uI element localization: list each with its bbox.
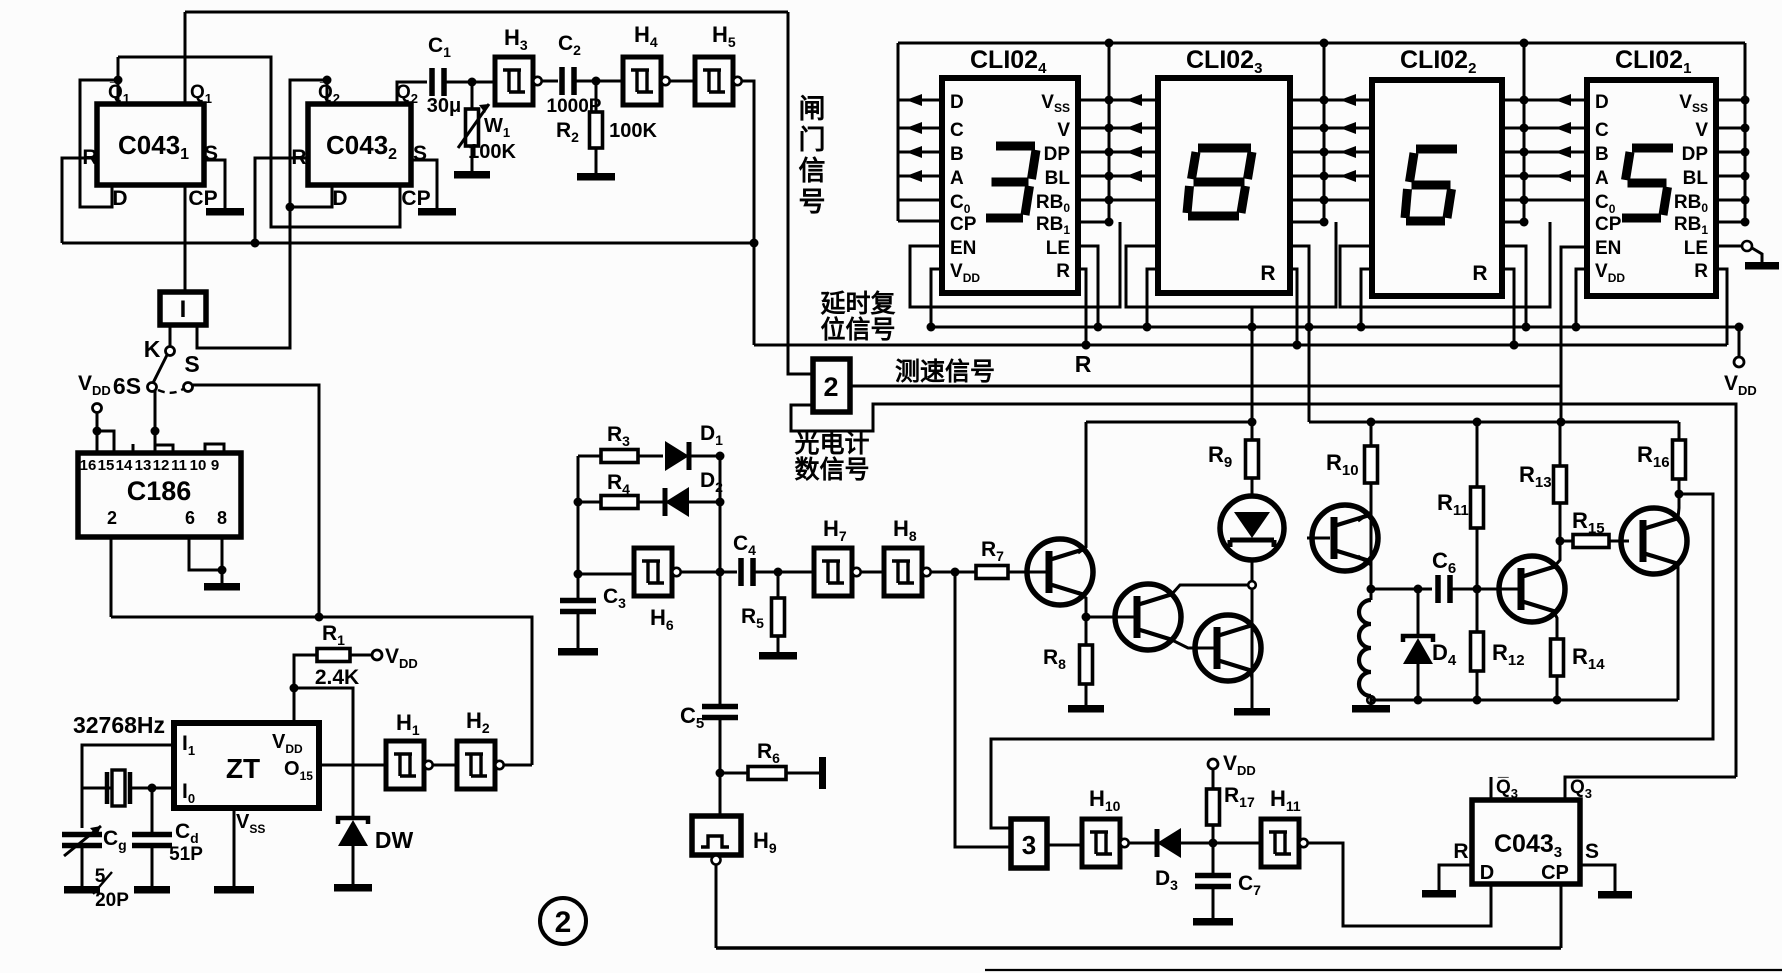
svg-text:9: 9	[211, 457, 219, 474]
digit 8 (CLI02_3)	[1198, 144, 1251, 153]
wire R4 left	[578, 501, 601, 504]
svg-text:R: R	[1694, 261, 1708, 282]
svg-text:B: B	[950, 144, 964, 165]
transistor Q1	[1027, 539, 1093, 605]
divider box I	[160, 292, 206, 325]
resistor R14	[1551, 639, 1564, 676]
R staple CLI02_2	[1502, 269, 1514, 345]
gate H1	[386, 741, 424, 789]
flip-flop C043_1	[97, 104, 204, 185]
svg-text:S: S	[1585, 840, 1599, 863]
pin stub 14	[132, 444, 135, 453]
capacitor C7	[1212, 843, 1215, 874]
wire D1 to vertical	[689, 455, 720, 458]
wire R15 to Q6 base	[1609, 540, 1629, 543]
resistor R17	[1212, 825, 1215, 843]
svg-text:A: A	[950, 168, 964, 189]
wire Q̄1 to D1 input staple	[80, 80, 118, 207]
EN staple CLI02_4	[910, 222, 1120, 307]
wire LC node to C6	[1371, 588, 1432, 591]
wire Q2 emitter to Q3 base	[1172, 640, 1214, 648]
node diode column join	[716, 452, 725, 461]
wire Q4 base stub	[1307, 537, 1330, 540]
switch contact 6S	[148, 383, 157, 392]
oscillator block ZT	[174, 723, 319, 808]
wire I box to switch K	[169, 325, 172, 347]
node D2 staple	[286, 203, 295, 212]
wire R8 to ground	[1085, 684, 1088, 705]
switch wire to pin 13	[154, 391, 157, 453]
resistor R8	[1085, 617, 1088, 645]
display driver CLI02_3	[1158, 78, 1290, 293]
gate H6	[634, 548, 672, 596]
resistor R15	[1560, 540, 1573, 543]
wire Q6 emitter down	[1677, 564, 1680, 700]
ground (C186 pin 6/8)	[204, 583, 240, 591]
svg-text:DP: DP	[1682, 144, 1709, 165]
svg-text:V: V	[1695, 120, 1708, 141]
wire H6 input	[578, 573, 634, 576]
wire Q5 emitter to R14	[1553, 610, 1557, 639]
node Q1 emitter	[1082, 613, 1091, 622]
display driver CLI02_4	[942, 78, 1078, 293]
bubble H4 out	[661, 77, 669, 85]
svg-text:2.4K: 2.4K	[315, 666, 359, 689]
capacitor C6	[1438, 575, 1450, 603]
svg-text:6: 6	[185, 508, 195, 528]
ground (C3)	[558, 648, 598, 656]
wire 3 to H10	[1047, 844, 1082, 847]
display driver CLI02_2	[1372, 80, 1502, 296]
zener DW	[338, 818, 368, 824]
wire Q̄2 to D2 staple	[290, 80, 332, 207]
wire Q̄2 stub	[326, 80, 329, 104]
wire Q3 to bus D	[1565, 777, 1736, 800]
node R5 tap	[774, 568, 783, 577]
svg-text:信: 信	[799, 156, 826, 186]
switch dashed link	[158, 389, 183, 393]
wire top bus to gate-signal line	[185, 11, 788, 14]
svg-text:D: D	[1480, 862, 1494, 884]
bubble H8 out	[922, 568, 930, 576]
VDD staple CLI02_2	[1361, 269, 1372, 327]
ground (C7)	[1193, 918, 1233, 926]
wire H5 output - delayed reset	[742, 81, 754, 345]
svg-text:CP: CP	[1595, 214, 1622, 235]
wire base node to Q5	[1477, 588, 1518, 591]
gate H4	[623, 57, 661, 105]
VDD staple CLI02_3	[1147, 269, 1158, 327]
svg-text:20P: 20P	[95, 890, 129, 911]
svg-text:DW: DW	[375, 827, 414, 853]
wire D3 to node	[1181, 842, 1261, 845]
svg-text:光电计: 光电计	[793, 430, 869, 458]
rows right of CLI02_1	[1716, 99, 1745, 102]
ground (VSS)	[214, 886, 254, 894]
svg-text:6S: 6S	[113, 373, 141, 399]
inductor L	[1359, 600, 1371, 696]
switch contact S	[184, 383, 193, 392]
transistor Q4	[1312, 505, 1378, 571]
LE row CLI02_1 to ground	[1716, 245, 1742, 248]
wire H9 down to bottom line	[715, 864, 718, 948]
svg-text:DP: DP	[1044, 144, 1071, 165]
ground (R5)	[759, 652, 797, 660]
svg-text:LE: LE	[1684, 238, 1708, 259]
svg-text:测速信号: 测速信号	[895, 358, 995, 386]
ground (R8)	[1068, 705, 1104, 713]
wire Cd to ground	[151, 846, 154, 886]
resistor R3	[601, 450, 638, 463]
ground (LE CLI02_1)	[1745, 262, 1779, 270]
ground (coil)	[1352, 705, 1390, 713]
svg-text:100K: 100K	[609, 120, 657, 142]
svg-text:10: 10	[190, 457, 207, 474]
wire Q2 collector to LED node	[1172, 585, 1249, 594]
svg-text:13: 13	[135, 457, 152, 474]
wire H2 output up to pin-2 net	[504, 764, 532, 767]
bubble H11 out	[1299, 839, 1307, 847]
resistor R16	[1678, 422, 1681, 440]
svg-text:号: 号	[799, 187, 826, 217]
EN staple CLI02_3	[1126, 222, 1336, 307]
variable capacitor Cg	[62, 835, 102, 846]
wire H3 to C2	[542, 80, 558, 83]
R staple CLI02_3	[1290, 269, 1297, 345]
CP row CLI02_4	[898, 220, 942, 223]
bubble H5 out	[733, 77, 741, 85]
svg-text:R: R	[1260, 262, 1275, 285]
wire D2 to vertical	[689, 501, 720, 504]
wire Q1 stub to top bus	[184, 12, 187, 104]
wire Cg to ground	[81, 846, 84, 886]
LE drop CLI02_4	[1078, 246, 1098, 327]
wire crystal right to I0	[130, 787, 152, 790]
gate H11	[1261, 819, 1299, 867]
resistor R5	[777, 572, 780, 598]
wire C6 to base node	[1450, 588, 1477, 591]
rail corner to R16	[1678, 421, 1679, 424]
counter C186	[78, 453, 241, 537]
bubble H1 out	[424, 761, 432, 769]
resistor R6	[720, 772, 748, 775]
wire C2 to H4	[574, 80, 623, 83]
svg-text:8: 8	[217, 508, 227, 528]
svg-text:16: 16	[80, 457, 97, 474]
gate H5	[695, 57, 733, 105]
wire pin 2 down	[110, 537, 113, 617]
wire Q4 collector	[1358, 512, 1371, 521]
gate H10	[1082, 819, 1120, 867]
wire Q1 emitter to Q2 base	[1086, 616, 1134, 619]
svg-text:门: 门	[799, 125, 826, 155]
resistor R12	[1476, 589, 1479, 632]
wire H7 to H8	[861, 571, 884, 574]
ground (Cd)	[134, 886, 170, 894]
svg-text:14: 14	[116, 457, 133, 474]
svg-text:EN: EN	[950, 238, 976, 259]
wire C4 to H7	[753, 571, 814, 574]
rail left (Q1 collector to R9)	[1086, 421, 1255, 424]
wire R1 node to DW	[294, 688, 353, 818]
svg-text:BL: BL	[1683, 168, 1709, 189]
svg-text:15: 15	[98, 457, 115, 474]
transistor Q2	[1115, 584, 1181, 650]
resistor R4	[601, 496, 638, 509]
svg-text:EN: EN	[1595, 238, 1621, 259]
wire Q1 collector up to rail	[1078, 422, 1086, 553]
svg-text:C186: C186	[127, 476, 192, 506]
wire pin 6 to pin 8	[189, 537, 222, 570]
R staple CLI02_1	[1716, 269, 1727, 345]
bus C (speed signal to EN)	[850, 247, 1587, 386]
node W1 tap	[468, 78, 477, 87]
diode D2	[638, 501, 665, 504]
svg-text:CP: CP	[188, 187, 217, 210]
wire CP down to bottom line	[1560, 884, 1563, 948]
capacitor C5	[702, 707, 738, 718]
potentiometer W1	[471, 82, 474, 109]
wire C5 down	[719, 718, 722, 816]
wire R10 to Q4	[1370, 483, 1373, 516]
gate H2	[457, 741, 495, 789]
node reset line	[251, 239, 260, 248]
left input bus of CLI02_4	[897, 43, 900, 221]
gate signal line	[788, 12, 813, 374]
node Q̄2	[323, 76, 332, 85]
resistor R1	[317, 649, 350, 662]
svg-text:CLI021: CLI021	[1615, 46, 1691, 77]
wire R7 to Q1 base	[1008, 571, 1046, 574]
ground (W1)	[454, 171, 490, 179]
transistor Q3	[1195, 615, 1261, 681]
wire H8 branch down to monostable 3	[955, 572, 1011, 847]
svg-text:C: C	[950, 120, 964, 141]
svg-text:CLI023: CLI023	[1186, 46, 1262, 77]
gate H8	[884, 548, 922, 596]
right bus of CLI02_1	[1744, 43, 1747, 222]
node R2 tap	[592, 77, 601, 86]
VDD staple CLI02_4	[931, 269, 942, 327]
digit 5 (CLI02_1)	[1632, 144, 1673, 153]
ground (Cg)	[64, 886, 100, 894]
bubble H2 out	[495, 761, 503, 769]
svg-text:BL: BL	[1045, 168, 1071, 189]
R staple CLI02_4	[1078, 269, 1086, 345]
svg-text:V: V	[1057, 120, 1070, 141]
wire crystal left to Cg	[82, 787, 112, 790]
bottom return line	[716, 946, 1561, 949]
vertical through Q4 to coil node	[1370, 516, 1373, 589]
staple pins 10-9	[205, 444, 224, 453]
svg-text:D: D	[950, 92, 964, 113]
ground (R C043_3)	[1422, 890, 1456, 898]
svg-text:S: S	[184, 351, 199, 377]
crystal ZT	[107, 772, 130, 804]
wire D2 staple down to divider box	[197, 207, 290, 348]
svg-text:S: S	[204, 142, 218, 165]
bubble H3 out	[533, 77, 541, 85]
svg-text:11: 11	[171, 457, 187, 474]
svg-text:C0432: C0432	[326, 130, 397, 163]
node R17/C7	[1209, 839, 1218, 848]
wire R2 to ground	[595, 148, 598, 173]
svg-text:R: R	[1453, 840, 1468, 863]
flip-flop C043_3	[1472, 800, 1580, 884]
resistor R13	[1559, 422, 1562, 466]
wire S pin to ground	[1580, 865, 1615, 891]
digit 3 (CLI02_4)	[996, 142, 1035, 151]
one-shot H9	[692, 816, 741, 855]
node S-wire junction	[315, 613, 324, 622]
wire S pin of C043_1 to ground	[204, 160, 225, 208]
bus rows between CLI02_4 and CLI02_3	[1078, 99, 1158, 102]
ground (DW)	[334, 884, 372, 892]
interface box 2	[813, 359, 850, 412]
digit 6 (CLI02_2)	[1416, 145, 1457, 154]
wire Q2 to C1	[397, 82, 427, 104]
input rows CLI02_4	[898, 99, 942, 102]
capacitor C1	[432, 68, 444, 96]
EN staple CLI02_2	[1340, 222, 1550, 307]
node H8 branch	[951, 568, 960, 577]
svg-text:K: K	[144, 336, 161, 362]
ground (S of C043_2)	[418, 208, 456, 216]
ground (S C043_3)	[1598, 891, 1632, 899]
svg-text:12: 12	[153, 457, 170, 474]
gate H3	[495, 57, 533, 105]
bus D (photo counting signal)	[791, 404, 1736, 777]
svg-text:CLI022: CLI022	[1400, 46, 1476, 77]
svg-text:CP: CP	[950, 214, 977, 235]
wire reset line bottom	[62, 242, 754, 245]
wire LED bottom	[1251, 560, 1254, 581]
svg-text:ZT: ZT	[226, 753, 260, 784]
wire I1 to crystal	[82, 745, 174, 788]
svg-text:I: I	[180, 296, 187, 323]
figure label circle 2	[540, 898, 586, 944]
wire O15 to H1	[319, 764, 386, 767]
resistor R11	[1471, 487, 1484, 528]
wire Q3 collector	[1250, 622, 1252, 627]
terminal VDD (R1)	[350, 654, 372, 657]
bubble LED node	[1248, 581, 1256, 589]
wire pin-2 net to oscillator	[111, 617, 532, 765]
zener D4	[1417, 589, 1420, 636]
transistor Q5	[1499, 556, 1565, 622]
svg-text:100K: 100K	[468, 141, 516, 163]
wire R1 left to VDD pin of ZT	[294, 655, 317, 723]
svg-text:S: S	[413, 142, 427, 165]
wire Q5 collector to R13/R15 node	[1553, 541, 1560, 568]
wire Q1 emitter down	[1078, 592, 1086, 617]
svg-text:32768Hz: 32768Hz	[73, 712, 165, 738]
svg-text:数信号: 数信号	[794, 456, 869, 484]
photodiode / LED circle	[1220, 496, 1284, 560]
diode D3	[1155, 829, 1160, 857]
resistor R10	[1370, 422, 1373, 446]
VDD terminal right	[1738, 327, 1741, 357]
wire left column R3/R4/C3/H6	[577, 456, 580, 600]
wire VDD to C186 pin 15/16	[96, 412, 99, 453]
wire R9 to LED	[1251, 422, 1254, 440]
svg-text:2: 2	[555, 906, 572, 939]
bus rows between CLI02_2 and CLI02_1	[1502, 99, 1587, 102]
svg-text:位信号: 位信号	[820, 315, 895, 344]
bubble H7 out	[852, 568, 860, 576]
LE drop CLI02_3 to resistor rail	[1290, 246, 1309, 422]
ground (Q3/LED)	[1234, 708, 1270, 716]
wire Q3 emitter to ground	[1250, 670, 1252, 678]
wire H1 to H2	[433, 764, 457, 767]
wire CP1 pin down to divider	[184, 185, 187, 292]
wire H6 to C4	[681, 571, 737, 574]
wire S contact to C186 pin-2 net	[193, 385, 319, 617]
display driver CLI02_1	[1587, 80, 1716, 296]
svg-text:A: A	[1595, 168, 1609, 189]
bus rows between CLI02_3 and CLI02_2	[1290, 99, 1372, 102]
bus A (VDD rail of displays)	[931, 326, 1739, 329]
svg-text:D: D	[332, 187, 347, 210]
wire C7 to ground	[1212, 887, 1215, 918]
wire S pin of C043_2 to ground	[411, 160, 437, 208]
resistor R9	[1246, 440, 1259, 478]
bubble H6 out	[672, 568, 680, 576]
switch arm	[153, 355, 167, 383]
capacitor C4	[741, 558, 753, 586]
capacitor Cd	[151, 788, 154, 834]
capacitor C2	[562, 67, 574, 95]
svg-text:C0431: C0431	[118, 130, 189, 163]
wire H8 out	[931, 571, 976, 574]
staple pins 13-12	[155, 445, 173, 453]
wire R5 to ground	[777, 636, 780, 652]
wire C1 to H3	[444, 81, 495, 84]
node reset-line junction	[750, 239, 759, 248]
diode D1	[638, 455, 663, 458]
svg-text:30μ: 30μ	[427, 95, 461, 117]
wire VSS to ground	[233, 808, 236, 886]
svg-text:C: C	[1595, 120, 1609, 141]
terminal bar (R6)	[819, 757, 826, 789]
wire Q̄3 stub	[1490, 777, 1493, 800]
capacitor C3	[560, 601, 596, 612]
svg-text:D: D	[112, 187, 127, 210]
feedback wire R16 node to monostable	[991, 494, 1713, 828]
svg-text:闸: 闸	[799, 94, 826, 124]
monostable box 3	[1011, 819, 1047, 868]
drop from bus A to LED	[1251, 307, 1254, 327]
wire Q6 collector to R16	[1678, 494, 1679, 518]
svg-text:R: R	[1075, 351, 1092, 377]
wire Q4 emitter to LC node	[1358, 556, 1371, 565]
wire H4 to H5	[670, 80, 695, 83]
wire H11 to D pin of C043_3	[1308, 843, 1491, 926]
vertical diode column to C5	[719, 456, 722, 572]
transistor Q6	[1621, 508, 1687, 574]
node Q̄1	[114, 76, 123, 85]
svg-text:R: R	[1056, 261, 1070, 282]
bubble H10 out	[1120, 839, 1128, 847]
resistor R2	[595, 81, 598, 112]
svg-text:2: 2	[107, 508, 117, 528]
display top bus	[898, 42, 1745, 45]
wire Q̄1 stub	[117, 57, 120, 104]
svg-text:D: D	[1595, 92, 1609, 113]
resistor R7	[976, 566, 1008, 579]
ground (S of C043_1)	[206, 208, 244, 216]
switch contact K	[166, 347, 175, 356]
